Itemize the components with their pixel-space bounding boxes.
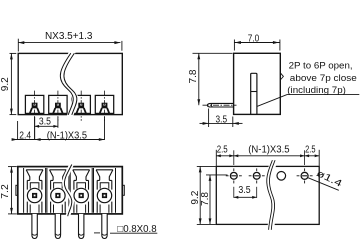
solder pin 1 (front view) [32,214,37,239]
svg-text:(N-1)X3.5: (N-1)X3.5 [248,144,290,155]
break line (front view) [64,162,72,219]
top view terminal 2 [49,91,67,121]
dimension 2.4 and (N-1)X3.5 [13,139,105,141]
svg-text:7.0: 7.0 [248,33,260,44]
dimension 7.2 [8,166,17,168]
side view solder pin [207,103,233,107]
dimension 9.2 (top view left) [10,52,17,54]
break line (top view) [62,50,75,118]
top view terminal 3 [72,91,90,121]
solder pin 4 (front view) [102,214,107,239]
svg-text:2P to 6P open,: 2P to 6P open, [289,60,353,71]
svg-text:□0.8X0.8: □0.8X0.8 [117,224,157,235]
hole 2 [249,168,265,183]
svg-text:2.4: 2.4 [19,130,31,141]
svg-text:7.2: 7.2 [0,184,11,199]
left mounting tab [16,185,18,195]
dimension 3.5 (pin) [208,109,210,128]
front view body outline [18,167,123,214]
svg-text:2.5: 2.5 [305,144,316,155]
pin size label 0.8X0.8 [94,232,100,234]
svg-text:3.5: 3.5 [238,185,251,196]
svg-text:9.2: 9.2 [0,77,11,91]
dimension 7.0 [233,40,235,51]
pcb layout outline [216,166,319,224]
solder pin 3 (front view) [79,214,84,239]
side view slot [251,73,257,114]
dimension 7.8 [193,52,233,54]
hole 1 [226,168,242,183]
svg-text:2.5: 2.5 [217,144,228,155]
top view terminal 4 [95,91,113,121]
svg-text:3.5: 3.5 [39,117,51,128]
dimension 7.8 (pcb) [206,174,228,176]
front view plug unit 1 [24,168,46,213]
dimension 3.5 (hole pitch) [233,187,235,198]
top dimensions 2.5 / (N-1)X3.5 / 2.5 [215,150,217,166]
side view body outline [234,53,281,114]
svg-text:above 7p close: above 7p close [290,73,357,84]
svg-text:(N-1)X3.5: (N-1)X3.5 [47,130,88,141]
leader pointer on body edge [280,73,283,80]
dimension 9.2 (pcb) [197,165,216,167]
break line (pcb layout) [269,157,276,233]
hole last [297,168,313,183]
svg-text:3.5: 3.5 [216,114,228,125]
front view plug unit 2 [47,168,69,213]
svg-text:7.8: 7.8 [188,69,199,83]
hole diameter label [308,178,339,191]
svg-text:NX3.5+1.3: NX3.5+1.3 [45,31,93,42]
hole N (plain) [277,172,286,181]
extension lines below top view [17,121,19,140]
dimension 3.5 (terminal pitch) [35,125,58,127]
dimension NX3.5+1.3 (top) [17,39,19,52]
right mounting tab [122,185,124,195]
solder pin 2 (front view) [55,214,60,239]
front view plug unit 4 [94,168,116,213]
svg-text:7.8: 7.8 [200,192,211,206]
top view body outline [18,53,122,114]
top view terminal 1 [25,91,43,121]
front view plug unit 3 [70,168,92,213]
leader line to slot [257,95,287,107]
